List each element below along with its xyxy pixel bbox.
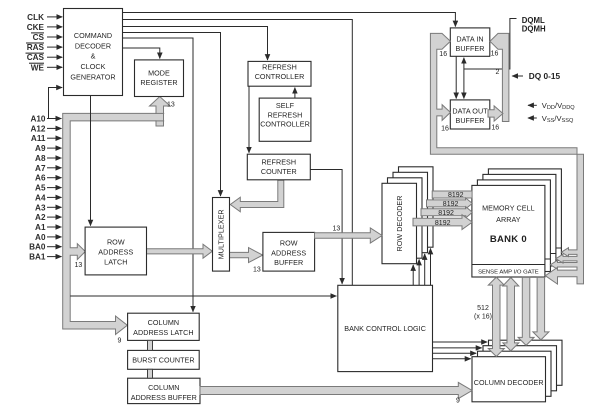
bank control logic block (338, 285, 433, 371)
self refresh controller block (259, 98, 311, 141)
input pin A1 (35, 223, 61, 232)
label 8192 bank1 bus (438, 210, 454, 217)
grey arrow multiplexer to row address buffer (230, 248, 263, 263)
svg-text:BURST COUNTER: BURST COUNTER (132, 356, 194, 365)
input pin RAS# (26, 43, 62, 52)
input pin WE# (29, 63, 62, 72)
grey arrow column address buffer to column decoder (9) (200, 382, 472, 398)
label 13 at row address buffer arrow (253, 267, 261, 274)
wire bank control logic to column decoder bank0 (433, 358, 471, 360)
input pin A10 (30, 115, 61, 124)
wire Vdd/Vddq power arrow (528, 104, 537, 106)
svg-text:REFRESH: REFRESH (268, 110, 303, 119)
svg-text:MEMORY CELL: MEMORY CELL (482, 204, 535, 213)
svg-text:ADDRESS: ADDRESS (98, 248, 133, 257)
data out buffer block (450, 100, 490, 129)
refresh counter block (247, 154, 310, 180)
input pin A5 (35, 184, 61, 193)
wire command decoder to data in buffer (122, 13, 455, 27)
svg-text:8192: 8192 (443, 201, 459, 208)
svg-text:COLUMN: COLUMN (148, 318, 179, 327)
svg-text:A0: A0 (35, 233, 46, 242)
wire self refresh controller to refresh controller (294, 88, 296, 98)
svg-text:A9: A9 (35, 144, 46, 153)
svg-text:512: 512 (477, 305, 489, 312)
grey double arrow sense amp to column decoder bank2 (518, 277, 534, 345)
input pin CLK (27, 13, 62, 22)
svg-text:16: 16 (439, 51, 447, 58)
wire Vss/Vssq power arrow (528, 117, 537, 119)
grey arrow refresh counter to multiplexer (230, 180, 283, 212)
svg-text:8192: 8192 (448, 192, 464, 199)
input pin A4 (35, 193, 61, 202)
label 13 at mode register arrow (167, 102, 175, 109)
svg-text:REGISTER: REGISTER (140, 78, 177, 87)
svg-text:13: 13 (167, 102, 175, 109)
label 2 at DQM lines (496, 69, 500, 76)
label 13 at row decoder arrow (333, 226, 341, 233)
svg-text:BUFFER: BUFFER (455, 116, 484, 125)
input pin BA1 (29, 253, 61, 262)
memory cell array stacked blocks (4 banks) with sense amp strips (472, 169, 562, 277)
svg-text:A8: A8 (35, 154, 46, 163)
svg-text:LATCH: LATCH (104, 257, 127, 266)
svg-text:REFRESH: REFRESH (261, 158, 296, 167)
wire refresh counter to bank control logic (311, 170, 343, 284)
grey double arrow sense amp to column decoder bank1 (503, 278, 519, 351)
svg-text:&: & (91, 52, 96, 61)
label Vss/Vssq (542, 114, 574, 124)
column address buffer block (128, 378, 200, 403)
row address latch block (85, 227, 146, 275)
svg-text:A2: A2 (35, 213, 46, 222)
svg-text:8192: 8192 (438, 210, 454, 217)
svg-text:BA1: BA1 (29, 253, 46, 262)
svg-text:WE: WE (31, 63, 45, 72)
grey connector burst counter to column address buffer (148, 369, 153, 378)
svg-text:CS: CS (33, 33, 45, 42)
input pin A7 (35, 164, 61, 173)
input pin CAS# (26, 53, 63, 62)
input pin A6 (35, 174, 61, 183)
svg-text:16: 16 (491, 125, 499, 132)
svg-text:A4: A4 (35, 193, 46, 202)
label 8192 bank3 bus (448, 192, 464, 199)
wire address bus to bank control logic (70, 295, 336, 297)
svg-text:COLUMN DECODER: COLUMN DECODER (474, 378, 544, 387)
svg-text:CLOCK: CLOCK (80, 62, 105, 71)
label 8192 bank2 bus (443, 201, 459, 208)
svg-text:CONTROLLER: CONTROLLER (255, 72, 305, 81)
svg-text:A12: A12 (30, 124, 45, 133)
wire command decoder to refresh controller (122, 27, 267, 61)
svg-text:SELF: SELF (276, 101, 295, 110)
svg-text:CAS: CAS (27, 53, 45, 62)
burst counter block (128, 350, 200, 369)
svg-text:REFRESH: REFRESH (262, 63, 297, 72)
wire bank control logic to column decoder bank1 (433, 352, 477, 354)
svg-text:A3: A3 (35, 203, 46, 212)
wire bank control logic to row decoder bank1 (418, 260, 420, 286)
internal data bus loop from data buffers to sense amps (430, 33, 583, 284)
label 16 at data out buffer left (441, 126, 449, 133)
wire data bus down into data out buffer (463, 69, 465, 98)
wire bank control logic to column decoder bank2 (433, 347, 482, 349)
svg-text:ROW: ROW (107, 238, 125, 247)
svg-text:A7: A7 (35, 164, 46, 173)
label 9 at column address latch arrow (118, 338, 122, 345)
input pin A3 (35, 203, 61, 212)
grey double arrow sense amp to column decoder bank3 (533, 277, 549, 340)
svg-text:16: 16 (441, 126, 449, 133)
row decoder stacked blocks (4 banks) (382, 167, 433, 264)
input pin A9 (35, 144, 61, 153)
svg-text:2: 2 (496, 69, 500, 76)
svg-text:SENSE AMP I/O GATE: SENSE AMP I/O GATE (478, 270, 539, 276)
wire command decoder to mode register (122, 48, 160, 58)
wire command decoder to column address latch (122, 38, 193, 312)
grey connector column address latch to burst counter (148, 340, 153, 350)
svg-text:A10: A10 (30, 115, 45, 124)
input pin A11 (31, 134, 61, 143)
DQ input/output bus with arrows into data in and out of data out buffers (488, 33, 509, 121)
label 512 (x 16) (474, 305, 492, 321)
svg-text:DQMH: DQMH (522, 24, 546, 33)
wire A10 branch to command decoder (49, 88, 63, 119)
svg-text:ADDRESS BUFFER: ADDRESS BUFFER (131, 393, 197, 402)
svg-text:DATA OUT: DATA OUT (452, 107, 488, 116)
svg-text:MODE: MODE (148, 68, 170, 77)
svg-text:RAS: RAS (27, 43, 45, 52)
svg-text:CKE: CKE (27, 23, 45, 32)
svg-text:9: 9 (118, 338, 122, 345)
wire bank control logic to row decoder bank3 (430, 249, 432, 286)
svg-text:16: 16 (491, 51, 499, 58)
grey bus 8192 row decoder to memory array bank2 (427, 198, 473, 209)
svg-text:ROW: ROW (280, 239, 298, 248)
svg-text:13: 13 (333, 226, 341, 233)
svg-text:13: 13 (253, 267, 261, 274)
svg-text:8192: 8192 (435, 220, 451, 227)
svg-text:A11: A11 (31, 134, 46, 143)
column address latch block (128, 313, 200, 340)
grey bus 8192 row decoder to memory array bank3 (432, 191, 472, 198)
label DQML DQMH (522, 16, 546, 33)
svg-text:BANK CONTROL LOGIC: BANK CONTROL LOGIC (344, 324, 426, 333)
multiplexer block (213, 198, 230, 272)
wire DQML/DQMH mask inputs (464, 19, 517, 70)
column decoder stacked blocks (4 banks) (472, 340, 562, 402)
svg-text:DQ 0-15: DQ 0-15 (529, 71, 561, 81)
svg-text:CONTROLLER: CONTROLLER (260, 120, 310, 129)
wire bank control logic to row decoder bank0 (412, 265, 414, 285)
wire refresh controller to refresh counter (248, 86, 250, 153)
input pin A2 (35, 213, 61, 222)
svg-text:BUFFER: BUFFER (274, 258, 303, 267)
input pin CKE (27, 23, 62, 32)
input pin CS# (31, 33, 62, 42)
wire command decoder to row address latch (90, 96, 92, 226)
grey arrow row address buffer to row decoder (13) (315, 228, 383, 243)
label 16 at data in buffer right (491, 51, 499, 58)
svg-text:COMMAND: COMMAND (74, 31, 112, 40)
junction lines bus arm over mode register stem (155, 113, 164, 121)
mode register block (135, 60, 184, 97)
svg-text:A1: A1 (35, 223, 46, 232)
wire data in buffer to data out buffer (455, 56, 457, 98)
input pin A0 (35, 233, 61, 242)
wire command decoder to multiplexer (122, 33, 220, 197)
wire bank control logic to row decoder bank2 (424, 254, 426, 285)
svg-text:A6: A6 (35, 174, 46, 183)
wire data bus up into data in buffer (463, 58, 465, 69)
address bus A0-A12/BA0-BA1 with branch arrows to mode register, row address latch, column address latch (63, 97, 170, 335)
svg-text:MULTIPLEXER: MULTIPLEXER (217, 209, 226, 259)
input pin A8 (35, 154, 61, 163)
label 13 at row address latch arrow (75, 262, 83, 269)
svg-text:COUNTER: COUNTER (261, 167, 297, 176)
input pin BA0 (29, 243, 61, 252)
label 9 at column decoder arrow (456, 398, 460, 405)
svg-text:BANK 0: BANK 0 (490, 234, 527, 245)
grey double arrow sense amp to column decoder bank0 (512 x16) (488, 277, 504, 356)
svg-text:DATA IN: DATA IN (456, 34, 483, 43)
wire command decoder to bank control logic (122, 20, 352, 286)
grey bus 8192 row decoder to memory array bank0 (413, 215, 472, 230)
svg-text:13: 13 (75, 262, 83, 269)
label DQ 0-15 (529, 71, 561, 81)
label Vdd/Vddq (542, 101, 575, 111)
svg-text:ROW DECODER: ROW DECODER (395, 195, 404, 251)
svg-text:BA0: BA0 (29, 243, 46, 252)
refresh controller block (248, 61, 311, 86)
label 16 at data in buffer left (439, 51, 447, 58)
grey bus 8192 row decoder to memory array bank1 (421, 207, 472, 218)
wire bank control logic to column decoder bank3 (433, 341, 488, 343)
grey arrow row address latch to multiplexer (147, 244, 213, 258)
command decoder & clock generator block (64, 9, 123, 96)
svg-text:ARRAY: ARRAY (496, 215, 521, 224)
svg-text:ADDRESS LATCH: ADDRESS LATCH (133, 328, 193, 337)
svg-text:CLK: CLK (27, 13, 44, 22)
label 8192 bank0 bus (435, 220, 451, 227)
svg-text:GENERATOR: GENERATOR (70, 72, 115, 81)
svg-text:A5: A5 (35, 184, 46, 193)
row address buffer block (263, 232, 315, 271)
svg-text:9: 9 (456, 398, 460, 405)
input pin A12 (30, 124, 61, 133)
svg-text:DECODER: DECODER (75, 41, 111, 50)
svg-text:(x 16): (x 16) (474, 314, 492, 321)
svg-text:ADDRESS: ADDRESS (271, 248, 306, 257)
svg-text:BUFFER: BUFFER (455, 44, 484, 53)
svg-text:COLUMN: COLUMN (148, 383, 179, 392)
data in buffer block (450, 28, 490, 56)
wire DQ 0-15 input arrow (512, 75, 523, 77)
label 16 at data out buffer right (491, 125, 499, 132)
